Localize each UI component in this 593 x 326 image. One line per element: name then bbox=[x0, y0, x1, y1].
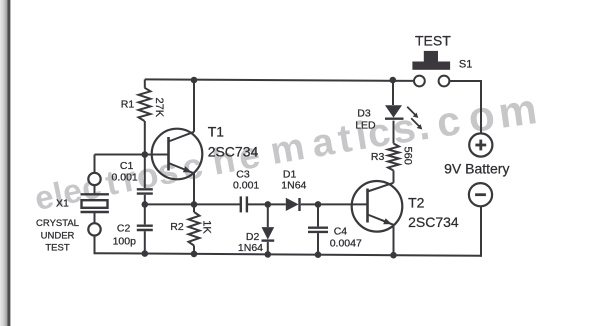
svg-text:0.0047: 0.0047 bbox=[330, 238, 362, 250]
node T1 base / R1 / C1 junction bbox=[142, 151, 149, 158]
svg-text:R3: R3 bbox=[371, 151, 385, 163]
svg-text:D1: D1 bbox=[283, 169, 297, 181]
svg-text:X1: X1 bbox=[56, 198, 69, 210]
node D3 / top rail junction bbox=[390, 77, 397, 84]
capacitor C2 bbox=[144, 204, 146, 224]
svg-text:1K: 1K bbox=[200, 220, 212, 234]
LED D3 leads bbox=[392, 80, 394, 105]
svg-text:S1: S1 bbox=[459, 58, 472, 70]
LED arrows bbox=[407, 107, 420, 127]
resistor R3 bbox=[388, 144, 399, 171]
switch S1 contacts bbox=[414, 76, 425, 87]
wire crystal top lead bbox=[94, 155, 96, 173]
resistor R1 bbox=[139, 88, 151, 121]
resistor R2 bbox=[193, 204, 195, 212]
LED arrowheads bbox=[413, 113, 419, 118]
wire S1 to battery bbox=[449, 81, 481, 133]
svg-text:27K: 27K bbox=[153, 98, 165, 118]
transistor T1 bbox=[152, 129, 203, 180]
wire battery minus lead bbox=[480, 206, 482, 256]
svg-text:TEST: TEST bbox=[45, 243, 69, 254]
svg-text:m: m bbox=[267, 126, 308, 173]
wire mid rail left bbox=[145, 203, 240, 205]
node C4 / T2 base junction bbox=[315, 201, 322, 208]
capacitor C1 bbox=[144, 155, 146, 189]
svg-text:UNDER: UNDER bbox=[41, 231, 75, 242]
capacitor C4 bbox=[317, 204, 319, 226]
svg-text:D3: D3 bbox=[357, 108, 371, 120]
battery plus terminal bbox=[469, 133, 492, 156]
node R2 / bottom rail junction bbox=[191, 251, 198, 258]
page edge dark line bbox=[7, 0, 10, 326]
svg-text:C4: C4 bbox=[334, 225, 348, 237]
svg-text:C2: C2 bbox=[117, 223, 131, 235]
svg-text:R2: R2 bbox=[170, 221, 184, 233]
svg-text:CRYSTAL: CRYSTAL bbox=[36, 218, 79, 229]
node T1 collector / top rail junction bbox=[191, 77, 198, 84]
svg-text:T2: T2 bbox=[408, 194, 425, 210]
node C4 / bottom rail junction bbox=[315, 251, 322, 258]
svg-text:T1: T1 bbox=[208, 123, 225, 139]
battery minus terminal bbox=[469, 183, 492, 206]
svg-text:D2: D2 bbox=[246, 231, 260, 243]
wire bottom rail bbox=[95, 253, 482, 256]
svg-text:m: m bbox=[495, 85, 539, 138]
switch S1 button bbox=[424, 51, 438, 63]
LED D3 triangle bbox=[385, 105, 402, 117]
transistor T2 bbox=[352, 181, 403, 232]
svg-text:C3: C3 bbox=[236, 169, 250, 181]
svg-text:560: 560 bbox=[402, 147, 414, 165]
svg-text:LED: LED bbox=[355, 120, 376, 132]
node D2 / bottom rail junction bbox=[265, 251, 272, 258]
wire R1 top lead bbox=[144, 79, 146, 87]
svg-text:C1: C1 bbox=[120, 160, 134, 172]
diode D2 triangle bbox=[262, 227, 275, 240]
node D2 / mid rail junction bbox=[265, 201, 272, 208]
svg-text:2SC734: 2SC734 bbox=[408, 214, 459, 230]
diode D1 triangle bbox=[286, 198, 299, 211]
diode D1 bbox=[298, 198, 300, 211]
svg-text:1N64: 1N64 bbox=[238, 242, 263, 254]
wire top rail bbox=[145, 79, 414, 81]
svg-text:100p: 100p bbox=[113, 235, 137, 247]
svg-text:1N64: 1N64 bbox=[281, 180, 306, 192]
svg-text:9V Battery: 9V Battery bbox=[444, 161, 509, 177]
capacitor C3 bbox=[240, 196, 242, 212]
T2 emitter arrow bbox=[383, 218, 392, 224]
T1 emitter arrow bbox=[183, 166, 192, 172]
diode D2 leads bbox=[267, 204, 269, 227]
svg-text:TEST: TEST bbox=[415, 32, 451, 48]
watermark electroschematics.com bbox=[31, 85, 539, 217]
wire T1 base rail bbox=[95, 154, 169, 156]
svg-text:R1: R1 bbox=[121, 99, 135, 111]
wire R1 bottom lead bbox=[144, 121, 146, 155]
node T2 emitter / bottom rail junction bbox=[390, 252, 397, 259]
svg-text:2SC734: 2SC734 bbox=[208, 143, 259, 159]
node C2 / bottom rail junction bbox=[142, 250, 149, 257]
svg-text:0.001: 0.001 bbox=[233, 180, 259, 192]
wire crystal bottom lead bbox=[94, 236, 96, 255]
crystal X1 bbox=[81, 185, 109, 223]
node T1 emitter / R2 junction bbox=[191, 201, 198, 208]
page edge shadow bbox=[0, 0, 7, 326]
node C1 / C2 / mid rail junction bbox=[142, 201, 149, 208]
svg-text:0.001: 0.001 bbox=[112, 172, 138, 184]
